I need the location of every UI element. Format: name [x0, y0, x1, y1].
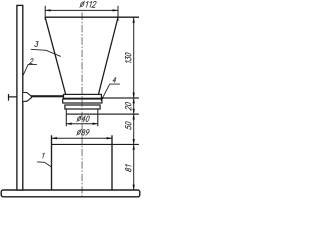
dim line Ø112: [45, 6, 118, 21]
node centerline (vertical axis, dash-dot): [81, 13, 83, 198]
valve flange lower (band R2): [63, 99, 102, 103]
clamp bracket: [23, 93, 31, 102]
dim line Ø40: [66, 123, 98, 125]
label 50: [125, 121, 131, 129]
valve flange upper (band R1): [64, 94, 102, 98]
outlet extension lines (Ø40): [66, 109, 98, 126]
dim line Ø89: [52, 137, 113, 139]
funnel left edge: [45, 17, 65, 94]
funnel right edge: [98, 17, 118, 94]
label Ø40: [77, 116, 90, 122]
label 81: [125, 165, 131, 172]
label Ø89: [77, 129, 90, 135]
callout 2: [29, 59, 33, 64]
label 130: [125, 52, 131, 64]
arrows Ø40: [66, 123, 98, 125]
label Ø112: [80, 1, 97, 7]
cylinder top edge / 50-81 tick line: [52, 143, 139, 145]
post (stand rod 2): [17, 5, 23, 190]
outlet bottom edge / 20-tick line: [66, 113, 139, 115]
vertical dimension chain line: [133, 18, 135, 191]
funnel top edge (extends right as extension line): [45, 16, 139, 18]
arrowhead of callout 4: [101, 97, 104, 102]
tick at valve (top of 20): [102, 97, 139, 99]
slide gate (band R3): [65, 105, 100, 109]
arrows Ø112: [45, 9, 118, 11]
callout 4: [113, 77, 117, 82]
arrows Ø89: [52, 137, 113, 139]
arm (horizontal holder): [31, 95, 64, 97]
cylinder (vessel 1) walls: [52, 135, 113, 190]
base plate: [1, 190, 140, 197]
callout 1: [42, 153, 45, 158]
thumbscrew of clamp: [9, 94, 17, 101]
label 20: [125, 102, 131, 111]
chain arrows: [133, 18, 135, 191]
callout 3: [34, 42, 38, 47]
